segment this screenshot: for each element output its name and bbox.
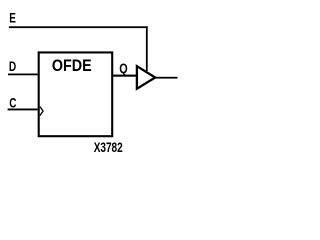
wire E vertical drop to buffer enable	[146, 26, 148, 71]
wire output	[155, 77, 178, 79]
clock input chevron	[40, 107, 43, 116]
svg-text:OFDE: OFDE	[52, 57, 92, 75]
svg-text:X3782: X3782	[94, 139, 123, 155]
svg-text:E: E	[9, 10, 16, 26]
wire Q to buffer	[112, 75, 137, 77]
svg-text:Q: Q	[119, 61, 128, 76]
svg-text:D: D	[9, 59, 17, 75]
flip-flop U1 OFDE symbol body	[39, 52, 113, 136]
tri-state output buffer U2	[137, 66, 155, 89]
wire C input	[8, 109, 38, 111]
wire D input	[8, 74, 38, 76]
wire E horizontal	[9, 26, 148, 28]
